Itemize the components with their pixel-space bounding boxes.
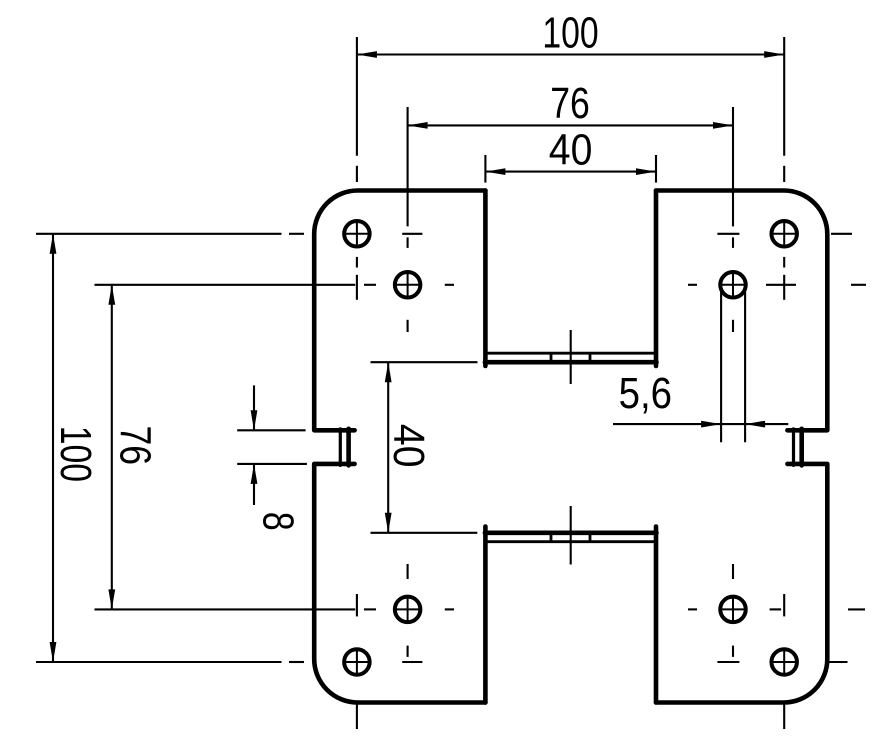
dimension 76 (top, horizontal): dimension line (408, 124, 733, 126)
top notch: right vertical edge (654, 191, 659, 367)
hole top-right corner: circle (771, 221, 797, 247)
dimension 40 (top): left extension line (484, 155, 486, 183)
part outline: top-left section (top edge left of notch, left rounded corner, left edge, left-notch upper lip) (314, 190, 485, 430)
svg-text:40: 40 (384, 424, 433, 468)
dimension 40 (top): right arrowhead (636, 168, 656, 175)
dimension 8: lower extension line (237, 463, 307, 465)
hole bottom-left inner: centre cross (395, 608, 421, 610)
bottom notch: tab tick right (589, 533, 592, 542)
dimension 100 (left, vertical): dimension line (52, 234, 54, 662)
centreline: top-left corner hole column (also ext. line of dim 100 top) (356, 37, 358, 156)
dimension 40 (vertical, centre): dimension line (387, 362, 389, 533)
right side notch: inner vertical (thin) (792, 429, 795, 466)
hole top-right corner: centre cross (771, 233, 797, 235)
bottom notch: flange line (thin, sheet thickness) (486, 540, 655, 543)
svg-text:5,6: 5,6 (619, 369, 672, 418)
svg-text:8: 8 (253, 512, 302, 531)
dimension 40 (vertical): bottom arrowhead (385, 513, 392, 533)
hole bottom-left corner: centre cross (344, 661, 370, 663)
bottom notch: left vertical edge (483, 527, 488, 703)
dimension 40 (top): left arrowhead (485, 168, 505, 175)
hole bottom-right corner: centre cross (771, 661, 797, 663)
dimension 100 (left): bottom arrowhead (50, 642, 57, 662)
dimension 5,6: left arrowhead (pointing right) (701, 421, 721, 428)
centreline: bottom corner hole row, right part (717, 661, 739, 663)
part outline: bottom-right section (bottom edge right of notch, right rounded corner, right edge, right-notch lower lip) (656, 464, 827, 703)
top notch: left vertical edge (483, 191, 488, 367)
top notch: tab tick right (589, 353, 592, 362)
hole top-left corner: circle (344, 221, 370, 247)
hole top-left inner: centre cross (395, 284, 421, 286)
dimension 40 (top, horizontal): dimension line (485, 171, 656, 173)
dimension 8: lower leader line (253, 464, 255, 505)
centreline: bottom-left inner hole column (407, 564, 409, 579)
svg-text:76: 76 (550, 79, 590, 128)
top notch: tab tick left (550, 353, 553, 362)
dimension 76 (left, vertical): dimension line (111, 285, 113, 610)
left side notch: inner vertical (thick) (346, 429, 351, 466)
hole bottom-right corner: circle (771, 649, 797, 675)
hole top-left inner: circle (395, 272, 421, 298)
centreline: top corner hole row, right part (717, 233, 739, 235)
top notch: vertical centreline (570, 330, 572, 384)
centreline: top corner hole row, left part (also ext. line of dim 100 left) (36, 233, 282, 235)
svg-text:40: 40 (549, 125, 593, 174)
hole bottom-left inner: circle (395, 597, 421, 623)
dimension 8: upper leader line (253, 385, 255, 430)
top notch: flange line (thin, sheet thickness) (486, 352, 655, 355)
dimension 5,6 (hole diameter): left tangent extension line (720, 292, 722, 442)
svg-text:100: 100 (51, 426, 100, 482)
dimension 40 (top): right extension line (655, 155, 657, 183)
bottom notch: top edge (thick) (485, 530, 657, 535)
part outline: bottom-left section (left-notch lower lip, left edge, bottom rounded corner, bottom edge left of notch) (314, 464, 485, 703)
hole bottom-right inner: centre cross (720, 608, 746, 610)
centreline: bottom-right corner hole column (783, 594, 785, 616)
centreline: bottom inner hole row, left part (also ext. line of dim 76 left) (95, 608, 356, 610)
dimension 40 (vertical): top arrowhead (385, 362, 392, 382)
top notch: bottom edge (thick) (485, 360, 657, 365)
bottom notch: right vertical edge (654, 527, 659, 703)
dimension 76 (top): left arrowhead (408, 122, 428, 129)
dimension 5,6: right leader line (745, 423, 788, 425)
centreline: top inner hole row, left part (also ext. line of dim 76 left) (95, 284, 356, 286)
centreline: top-right inner hole column (also ext. line of dim 76 top) (732, 107, 734, 226)
hole top-right inner: circle (720, 272, 746, 298)
dimension 8 (left notch height): upper extension line (237, 429, 305, 431)
centreline: top inner hole row, right part (688, 284, 697, 286)
dimension 76 (left): top arrowhead (108, 285, 115, 305)
dimension 40 (vertical): bottom extension line (371, 532, 478, 534)
centreline: top-right corner hole column (also ext. line of dim 100 top) (783, 37, 785, 156)
dimension 76 (top): right arrowhead (713, 122, 733, 129)
dimension 76 (left): bottom arrowhead (108, 589, 115, 609)
left side notch: inner vertical (thin) (339, 429, 342, 466)
hole top-right inner: centre cross (720, 284, 746, 286)
dimension 100 (top): right arrowhead (764, 51, 784, 58)
dimension 8: lower arrowhead (pointing up) (251, 464, 258, 484)
hole bottom-right inner: circle (720, 597, 746, 623)
bottom notch: vertical centreline (570, 506, 572, 565)
svg-text:76: 76 (111, 426, 160, 466)
bottom notch: tab tick left (550, 533, 553, 542)
dimension 40 (vertical): top extension line (371, 361, 478, 363)
centreline: bottom corner hole row, left part (also ext. line of dim 100 left) (36, 661, 282, 663)
centreline: bottom-left corner hole column (356, 594, 358, 616)
dimension 5,6: middle segment (721, 423, 745, 425)
centreline: top-left inner hole column (also ext. line of dim 76 top) (407, 107, 409, 226)
dimension 100 (left): top arrowhead (50, 234, 57, 254)
dimension 100 (top, horizontal): dimension line (357, 53, 784, 55)
hole top-left corner: centre cross (344, 233, 370, 235)
dimension 8: upper arrowhead (pointing down) (251, 410, 258, 430)
part outline: top-right section (right-notch upper lip, right edge, top rounded corner, top edge right of notch) (656, 191, 827, 431)
centreline: bottom-right inner hole column (732, 564, 734, 579)
dimension 5,6: left leader line (613, 423, 721, 425)
dimension 5,6: right arrowhead (pointing left) (745, 421, 765, 428)
dimension 100 (top): left arrowhead (357, 51, 377, 58)
hole bottom-left corner: circle (344, 649, 370, 675)
dimension 5,6: right tangent extension line (744, 292, 746, 442)
right side notch: inner vertical (thick) (799, 429, 804, 466)
svg-text:100: 100 (542, 8, 598, 57)
centreline: bottom inner hole row, right part (688, 608, 697, 610)
